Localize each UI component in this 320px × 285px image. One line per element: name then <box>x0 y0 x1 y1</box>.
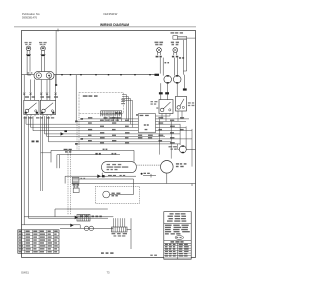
svg-text:73: 73 <box>107 270 110 274</box>
svg-text:5995381476: 5995381476 <box>22 16 37 20</box>
svg-text:WIRING DIAGRAM: WIRING DIAGRAM <box>100 23 129 27</box>
svg-text:FEF352FW: FEF352FW <box>104 12 118 16</box>
svg-text:Publication No:: Publication No: <box>22 12 40 16</box>
svg-text:GWS1: GWS1 <box>21 270 29 274</box>
